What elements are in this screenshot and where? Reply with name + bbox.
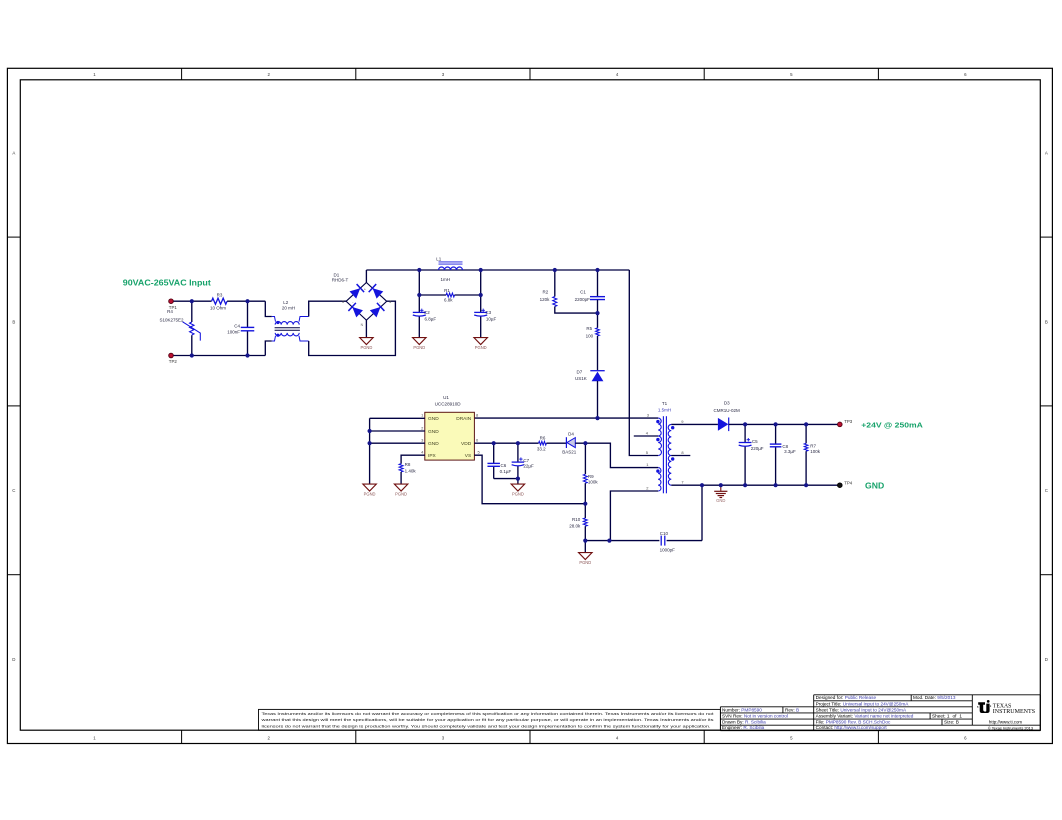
svg-text:PGND: PGND bbox=[360, 345, 372, 350]
svg-text:1.5mH: 1.5mH bbox=[658, 407, 671, 412]
svg-text:28.0k: 28.0k bbox=[569, 523, 581, 528]
svg-text:Size: B: Size: B bbox=[944, 720, 959, 725]
svg-text:6.8k: 6.8k bbox=[444, 297, 453, 302]
svg-text:A: A bbox=[1045, 151, 1048, 156]
svg-text:RHD6-T: RHD6-T bbox=[332, 278, 349, 283]
svg-text:SVN Rev: Not in version contro: SVN Rev: Not in version control bbox=[722, 714, 788, 719]
svg-text:L2: L2 bbox=[283, 300, 289, 305]
svg-text:100k: 100k bbox=[588, 479, 599, 484]
svg-text:Project Title: Universal Input: Project Title: Universal Input to 24V@25… bbox=[816, 701, 910, 706]
svg-text:C7: C7 bbox=[523, 458, 529, 463]
svg-text:R2: R2 bbox=[543, 290, 549, 295]
svg-text:PGND: PGND bbox=[579, 560, 591, 565]
svg-text:GND: GND bbox=[428, 416, 439, 422]
svg-text:Texas Instruments and/or its l: Texas Instruments and/or its licensors d… bbox=[262, 711, 715, 716]
svg-text:R10: R10 bbox=[572, 517, 581, 522]
svg-text:Engineer: R. Scibilia: Engineer: R. Scibilia bbox=[722, 725, 765, 730]
svg-text:20 mH: 20 mH bbox=[282, 306, 295, 311]
svg-text:PGND: PGND bbox=[395, 492, 407, 497]
svg-text:© Texas Instruments 2013: © Texas Instruments 2013 bbox=[988, 726, 1033, 731]
svg-text:C2: C2 bbox=[424, 310, 430, 315]
svg-text:100: 100 bbox=[586, 334, 594, 339]
svg-text:100k: 100k bbox=[810, 449, 821, 454]
svg-text:D3: D3 bbox=[724, 401, 730, 406]
svg-text:TP2: TP2 bbox=[169, 359, 178, 364]
svg-text:VDD: VDD bbox=[461, 441, 472, 447]
svg-text:warrant that this design will: warrant that this design will meet the s… bbox=[262, 717, 714, 722]
svg-text:R7: R7 bbox=[810, 443, 816, 448]
svg-text:R1: R1 bbox=[444, 288, 450, 293]
svg-text:D4: D4 bbox=[568, 432, 574, 437]
svg-text:10 Ohm: 10 Ohm bbox=[210, 305, 226, 310]
svg-text:33.2: 33.2 bbox=[537, 447, 546, 452]
svg-text:1mH: 1mH bbox=[440, 277, 450, 282]
svg-text:90VAC-265VAC Input: 90VAC-265VAC Input bbox=[123, 279, 211, 288]
svg-text:+: + bbox=[364, 288, 366, 292]
svg-text:+24V @ 250mA: +24V @ 250mA bbox=[861, 420, 923, 429]
svg-text:B: B bbox=[12, 319, 15, 324]
svg-text:2200pF: 2200pF bbox=[575, 297, 591, 302]
svg-text:File: PMP8590 Rev. B SCH.SchDo: File: PMP8590 Rev. B SCH.SchDoc bbox=[816, 720, 891, 725]
svg-text:CMR1U-02M: CMR1U-02M bbox=[713, 408, 740, 413]
svg-text:D: D bbox=[1045, 657, 1048, 662]
svg-text:Drawn By: R. Scibilia: Drawn By: R. Scibilia bbox=[722, 720, 766, 725]
svg-text:Rev: B: Rev: B bbox=[785, 707, 799, 712]
svg-text:120k: 120k bbox=[540, 297, 551, 302]
svg-text:0.1µF: 0.1µF bbox=[500, 469, 512, 474]
svg-text:Number: PMP8590: Number: PMP8590 bbox=[722, 707, 762, 712]
svg-text:TP4: TP4 bbox=[844, 481, 853, 486]
svg-text:10µF: 10µF bbox=[486, 316, 497, 321]
svg-text:D1: D1 bbox=[334, 272, 340, 277]
svg-text:Assembly Variant: Variant name: Assembly Variant: Variant name not inter… bbox=[816, 714, 914, 719]
svg-text:1000pF: 1000pF bbox=[660, 548, 676, 553]
svg-text:B: B bbox=[1045, 319, 1048, 324]
svg-text:VS: VS bbox=[465, 453, 471, 459]
svg-text:22µF: 22µF bbox=[523, 464, 534, 469]
svg-text:Sheet Title: Universal Input t: Sheet Title: Universal Input to 24V@250m… bbox=[816, 707, 907, 712]
svg-text:GND: GND bbox=[428, 429, 439, 435]
svg-text:C: C bbox=[1045, 488, 1048, 493]
svg-text:PGND: PGND bbox=[364, 492, 376, 497]
svg-text:C5: C5 bbox=[752, 439, 758, 444]
svg-text:S10K275E2: S10K275E2 bbox=[159, 317, 184, 322]
svg-text:PGND: PGND bbox=[475, 345, 487, 350]
svg-text:R6: R6 bbox=[540, 435, 546, 440]
svg-text:http://www.ti.com: http://www.ti.com bbox=[989, 720, 1023, 725]
svg-text:C: C bbox=[12, 488, 15, 493]
svg-text:R9: R9 bbox=[588, 474, 594, 479]
svg-text:TP3: TP3 bbox=[844, 419, 853, 424]
svg-text:C3: C3 bbox=[485, 310, 491, 315]
svg-text:C1: C1 bbox=[580, 290, 586, 295]
svg-text:R4: R4 bbox=[167, 309, 173, 314]
svg-text:1.40k: 1.40k bbox=[405, 468, 417, 473]
svg-text:C6: C6 bbox=[501, 463, 507, 468]
svg-text:DRAIN: DRAIN bbox=[456, 416, 471, 422]
svg-text:INSTRUMENTS: INSTRUMENTS bbox=[993, 708, 1036, 715]
svg-text:R5: R5 bbox=[586, 326, 592, 331]
svg-text:6.8µF: 6.8µF bbox=[425, 316, 437, 321]
svg-text:PGND: PGND bbox=[413, 345, 425, 350]
svg-text:C4: C4 bbox=[234, 323, 240, 328]
svg-text:licensors do not warrant that: licensors do not warrant that the design… bbox=[262, 723, 711, 728]
svg-text:Contact: http://www.ti.com/sup: Contact: http://www.ti.com/support bbox=[816, 725, 888, 730]
svg-text:GND: GND bbox=[865, 482, 885, 491]
svg-text:GND: GND bbox=[428, 441, 439, 447]
svg-text:C10: C10 bbox=[660, 531, 669, 536]
svg-text:U1: U1 bbox=[443, 395, 449, 400]
svg-text:Designed for: Public Release: Designed for: Public Release bbox=[816, 695, 877, 700]
svg-text:R8: R8 bbox=[405, 462, 411, 467]
svg-text:US1K: US1K bbox=[575, 376, 587, 381]
svg-text:100nF: 100nF bbox=[227, 330, 240, 335]
svg-text:D: D bbox=[12, 657, 15, 662]
svg-text:3.3µF: 3.3µF bbox=[784, 449, 796, 454]
svg-text:Mod. Date: 9/5/2013: Mod. Date: 9/5/2013 bbox=[913, 695, 956, 700]
svg-text:D7: D7 bbox=[577, 370, 583, 375]
svg-text:220µF: 220µF bbox=[751, 446, 764, 451]
svg-text:L1: L1 bbox=[436, 256, 442, 261]
svg-text:T1: T1 bbox=[662, 401, 668, 406]
svg-text:BAS21: BAS21 bbox=[562, 450, 577, 455]
svg-text:GND: GND bbox=[716, 498, 725, 503]
svg-text:R3: R3 bbox=[217, 293, 223, 298]
svg-text:PGND: PGND bbox=[512, 492, 524, 497]
svg-text:UCC28910D: UCC28910D bbox=[435, 402, 462, 407]
svg-text:IPX: IPX bbox=[428, 453, 437, 459]
svg-text:A: A bbox=[12, 151, 15, 156]
